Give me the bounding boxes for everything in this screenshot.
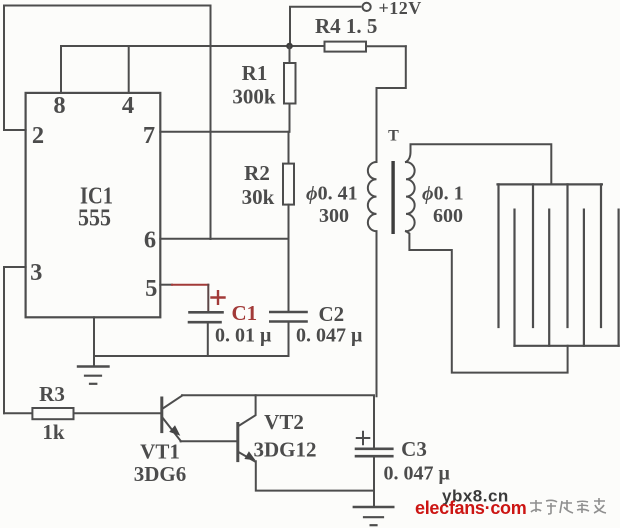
svg-text:0. 047 μ: 0. 047 μ: [384, 463, 451, 485]
op-amp/timer IC1 555 box: [26, 93, 161, 317]
wire +12V feed: [290, 7, 360, 46]
svg-text:6: 6: [144, 227, 156, 254]
svg-text:0. 01 μ: 0. 01 μ: [215, 325, 272, 347]
svg-text:ϕ0. 41: ϕ0. 41: [306, 183, 358, 205]
grid top finger 1: [497, 184, 499, 327]
svg-text:ϕ0. 1: ϕ0. 1: [422, 183, 464, 205]
ground symbol (IC): [78, 365, 109, 367]
wire R2 bottom to C2: [288, 239, 290, 312]
grid bottom finger 1: [513, 210, 515, 346]
wire pin 3 to R3: [4, 267, 26, 413]
svg-text:C1: C1: [232, 301, 258, 325]
wire pin5 corner down to C1: [207, 285, 209, 313]
grid bottom finger 4: [617, 210, 619, 346]
transformer T primary winding: [368, 162, 377, 231]
svg-text:T: T: [388, 128, 399, 145]
transformer T secondary winding: [406, 162, 415, 231]
svg-text:R4 1. 5: R4 1. 5: [315, 14, 377, 38]
wire jog from R4 down to transformer primary: [377, 46, 406, 162]
wire pin2 to top-left and down to pin6 net: [4, 6, 211, 240]
resistor R4: [325, 42, 367, 52]
wire secondary top to grid top bus: [406, 144, 551, 184]
svg-text:R1: R1: [242, 61, 268, 85]
svg-text:300: 300: [319, 205, 349, 227]
resistor R1: [289, 46, 291, 63]
wire pin 5 (red part): [172, 284, 208, 286]
wire collector rail: [182, 394, 374, 396]
svg-text:7: 7: [143, 122, 155, 149]
svg-text:1k: 1k: [42, 420, 65, 444]
svg-text:600: 600: [433, 205, 463, 227]
polarity + of C1 (red): [212, 291, 225, 304]
transistor VT1: [160, 398, 163, 432]
svg-text:3DG6: 3DG6: [134, 462, 187, 486]
ground symbol (output): [354, 506, 394, 508]
terminal +12V circle: [363, 3, 371, 11]
wire pin 5 (dark part): [160, 284, 172, 286]
capacitor C3: [373, 396, 375, 449]
grid bottom finger 2: [548, 210, 550, 346]
electrode grid top bus: [498, 183, 602, 185]
svg-text:4: 4: [122, 92, 134, 119]
svg-text:+12V: +12V: [379, 0, 422, 18]
wire VT2 emitter down and right: [256, 461, 374, 490]
grid top finger 2: [532, 184, 534, 327]
electrode grid bottom bus: [515, 345, 619, 347]
svg-text:0. 047 μ: 0. 047 μ: [296, 325, 363, 347]
capacitor C2: [270, 311, 306, 314]
wire secondary bottom to grid bottom bus: [406, 231, 568, 372]
svg-text:30k: 30k: [242, 185, 275, 209]
node junction dot at R1 top: [286, 43, 293, 50]
capacitor C1: [190, 311, 223, 314]
wire ground bus y=356: [94, 355, 289, 357]
wire primary bottom to collector rail: [376, 231, 378, 396]
svg-text:R3: R3: [39, 382, 65, 406]
wire pin 6: [160, 238, 288, 240]
wire VT1 emitter to VT2 base: [181, 440, 237, 442]
svg-text:8: 8: [53, 92, 65, 119]
svg-text:555: 555: [78, 205, 111, 232]
svg-text:elecfans·com: elecfans·com: [415, 498, 526, 518]
transistor VT2: [236, 424, 239, 461]
watermark chinese characters: [530, 498, 606, 514]
wire Vcc rail y=46: [61, 45, 324, 47]
transformer core: [391, 161, 394, 234]
wire pin 4 to Vcc rail: [128, 46, 130, 93]
svg-text:3DG12: 3DG12: [254, 438, 317, 462]
svg-text:2: 2: [32, 122, 44, 149]
wire IC pin1 to ground: [93, 317, 95, 366]
svg-text:5: 5: [145, 275, 157, 302]
grid top finger 4: [600, 184, 602, 327]
svg-text:C2: C2: [319, 302, 345, 326]
svg-text:300k: 300k: [232, 85, 276, 109]
svg-text:VT2: VT2: [264, 410, 304, 434]
resistor R2: [288, 132, 290, 164]
svg-text:C3: C3: [401, 437, 427, 461]
grid bottom finger 3: [583, 210, 585, 346]
svg-text:VT1: VT1: [140, 440, 180, 464]
svg-text:R2: R2: [244, 161, 270, 185]
wire pin 7 to R1/R2 junction: [160, 131, 289, 133]
grid top finger 3: [566, 184, 568, 327]
svg-text:3: 3: [30, 259, 42, 286]
resistor R3: [4, 412, 32, 414]
polarity + of C3: [357, 432, 370, 444]
wire pin 8 to Vcc rail: [60, 46, 62, 93]
